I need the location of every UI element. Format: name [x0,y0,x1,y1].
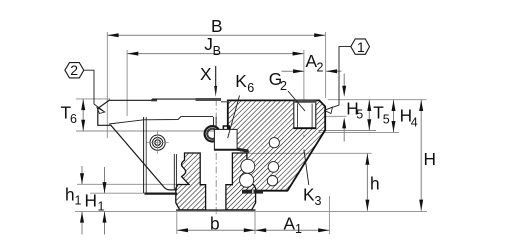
lube port counterbore mark [223,126,229,129]
side view bottom thick line [145,193,178,195]
svg-text:2: 2 [317,61,324,75]
lube port dark ring [205,126,220,141]
dimension b [177,229,255,231]
dimension JB line [127,53,304,55]
seal retainer white block [214,129,237,149]
extension line: h1 (line A) [77,183,180,185]
balloon 1 leader [325,47,351,110]
svg-text:3: 3 [315,194,322,208]
upper seal lip dark [238,148,249,153]
X arrow [215,66,217,87]
rail cross-section right half [226,153,256,210]
balloon 2 hexagon [65,63,84,78]
extension line: H5 bottom short [324,115,347,117]
side view outline: end plate [98,100,177,190]
rail bottom thick edge [176,209,256,211]
ball A [269,138,279,148]
svg-text:h: h [65,185,75,205]
ball E [240,173,254,187]
svg-text:H: H [424,149,436,169]
extension line: T5 bottom short [319,130,377,132]
G2 hole bottom thick [294,127,316,129]
dimension H1 [104,167,106,193]
dimension H5 outside arrows [343,74,345,93]
balloon 1 hexagon [351,39,370,54]
svg-text:1: 1 [357,39,365,55]
rail cross-section left half [176,153,206,210]
svg-text:A: A [284,214,296,234]
extension line: b right vertical [254,212,256,234]
dimension H [420,100,422,211]
ball C [267,176,277,186]
screw crosshairs [147,142,169,144]
dimension h1 [81,166,83,184]
extension line: B left vertical [106,32,108,138]
dimension H4 [393,100,395,132]
K3 leader [304,150,309,185]
extension line: rail top right (h top) [248,152,372,154]
extension line: rail bottom across [75,210,427,212]
svg-text:b: b [210,214,220,234]
svg-text:h: h [370,174,380,194]
dimension T5 [368,100,370,131]
dimension h [366,154,368,211]
side view internal shoulder line [109,116,213,124]
svg-text:4: 4 [411,115,418,129]
G2 hole walls [294,100,316,128]
ball B [268,162,279,173]
svg-text:6: 6 [247,81,254,95]
end plate inner joint double line [143,117,145,193]
top clamp strip dark band [196,98,222,101]
extension line: JB left vertical [126,50,128,116]
balloon 2 leader [84,70,104,111]
dimension A2 [282,70,305,72]
dimension T6 [82,99,84,131]
svg-text:B: B [213,44,221,58]
extension line: T6 top left [76,98,110,100]
svg-text:2: 2 [70,62,78,78]
extension line: b left vertical [176,212,178,234]
svg-text:1: 1 [75,194,82,208]
extension line: B right vertical [325,32,327,98]
svg-text:5: 5 [383,113,390,127]
G2 tapped hole white [294,100,316,128]
K6 leader [228,96,240,139]
G2 hole mouth chamfer band [294,100,316,102]
centerline: rail axis dash-dot [215,99,217,215]
svg-text:B: B [211,16,223,36]
rail side-view edge double line [173,154,175,190]
carriage cross-section hatched body [228,100,325,190]
svg-text:1: 1 [295,222,302,236]
extension line: H1 (line B) [90,192,145,194]
svg-text:K: K [303,185,315,205]
extension line: A1 right vertical [328,196,330,234]
screw head circles [150,135,165,150]
carriage cross-section outline top [228,100,325,190]
svg-text:H: H [85,191,97,211]
ball D [241,159,255,173]
extension line: JB right vertical / G2 hole centerline [303,50,305,97]
lower seal strip dark [242,190,263,194]
extension line: T6 bottom left [76,130,216,132]
svg-text:2: 2 [280,79,287,93]
svg-text:6: 6 [70,112,77,126]
side view top edge step [152,98,196,100]
side view top edge left [110,99,153,101]
lube bore walls [213,117,215,127]
G2 leader [288,91,305,111]
extension line: carriage top right [328,99,427,101]
extension line: H4 bottom short [319,132,400,134]
dimension B line [107,34,325,36]
dimension A1 [255,229,329,231]
svg-text:5: 5 [356,108,363,122]
svg-text:1: 1 [98,200,105,214]
svg-text:K: K [235,71,247,91]
svg-text:X: X [200,64,212,84]
